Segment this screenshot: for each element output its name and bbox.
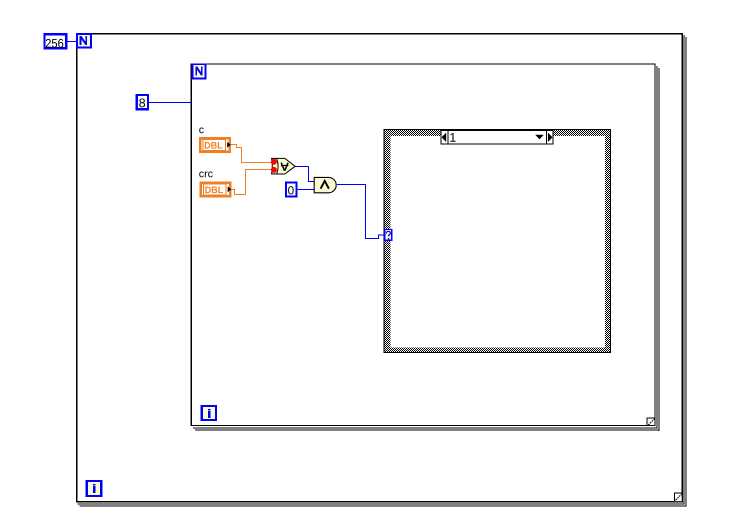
wire 256 to N	[67, 41, 77, 43]
wire crc to xor	[231, 170, 272, 195]
i terminal inner loop	[202, 406, 216, 420]
control terminal c (DBL)	[200, 138, 231, 152]
resize corner outer loop	[674, 493, 683, 502]
label crc	[199, 172, 212, 178]
control terminal crc (DBL)	[201, 183, 232, 197]
wire and to case selector	[337, 185, 384, 239]
label c	[199, 128, 204, 134]
wire c to xor	[231, 145, 272, 163]
N terminal inner loop	[193, 64, 206, 78]
numeric constant 0	[286, 183, 296, 197]
N terminal outer loop	[77, 34, 91, 48]
numeric constant 256	[44, 34, 66, 48]
xor gate	[272, 158, 296, 174]
coercion dot upper	[271, 159, 277, 165]
case selector label	[441, 131, 553, 145]
case selector terminal ?	[385, 230, 392, 241]
and gate	[314, 177, 336, 192]
wire xor to and	[295, 167, 314, 182]
resize corner inner loop	[646, 418, 655, 426]
wire 0 to and	[297, 189, 314, 191]
for-loop inner frame	[191, 64, 660, 431]
case structure border	[384, 130, 611, 353]
i terminal outer loop	[87, 481, 102, 496]
for-loop outer frame	[76, 33, 687, 507]
wire 8 to inner loop	[149, 102, 192, 104]
numeric constant 8	[137, 95, 148, 109]
coercion dot lower	[271, 167, 277, 173]
